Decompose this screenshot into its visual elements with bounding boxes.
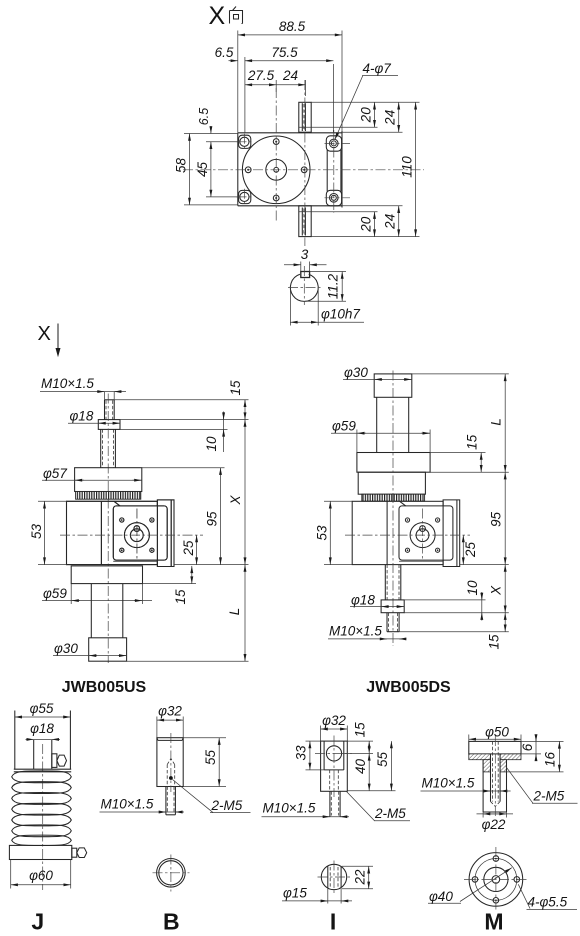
svg-text:X: X [209,2,226,30]
svg-text:16: 16 [543,752,558,768]
svg-text:10: 10 [465,580,480,596]
svg-text:6.5: 6.5 [215,45,234,60]
svg-text:55: 55 [375,752,390,768]
svg-text:24: 24 [383,214,398,230]
svg-text:11.2: 11.2 [326,273,341,299]
svg-text:φ18: φ18 [70,409,94,424]
svg-text:75.5: 75.5 [271,45,298,60]
svg-text:15: 15 [464,434,479,450]
svg-text:φ22: φ22 [482,817,506,832]
svg-text:φ10h7: φ10h7 [321,307,360,322]
svg-text:φ55: φ55 [30,701,54,716]
svg-text:φ50: φ50 [485,725,509,740]
svg-text:J: J [31,909,44,935]
svg-text:φ30: φ30 [54,641,78,656]
svg-text:95: 95 [205,511,220,527]
svg-text:55: 55 [203,750,218,766]
svg-text:M: M [484,909,503,935]
svg-text:33: 33 [294,745,309,761]
svg-text:40: 40 [353,759,368,775]
svg-text:M10×1.5: M10×1.5 [329,624,382,639]
svg-text:M10×1.5: M10×1.5 [41,376,94,391]
svg-text:φ59: φ59 [332,419,356,434]
svg-text:58: 58 [174,158,189,174]
svg-text:3: 3 [301,247,309,262]
svg-text:15: 15 [228,380,243,396]
svg-text:15: 15 [352,722,367,738]
svg-text:20: 20 [358,107,373,124]
svg-text:L: L [227,608,242,616]
svg-text:M10×1.5: M10×1.5 [422,776,475,791]
svg-text:M10×1.5: M10×1.5 [101,797,154,812]
svg-text:24: 24 [282,68,298,83]
svg-text:M10×1.5: M10×1.5 [263,801,316,816]
svg-text:φ18: φ18 [30,721,54,736]
svg-text:6: 6 [520,743,535,751]
svg-text:15: 15 [173,589,188,605]
svg-text:53: 53 [29,524,44,540]
svg-text:I: I [330,909,336,935]
svg-text:B: B [163,909,180,935]
svg-text:JWB005US: JWB005US [62,679,147,696]
svg-text:2-M5: 2-M5 [533,789,565,804]
svg-text:JWB005DS: JWB005DS [366,679,451,696]
svg-text:53: 53 [315,525,330,541]
svg-text:φ15: φ15 [283,886,307,901]
svg-text:2-M5: 2-M5 [211,798,243,813]
svg-text:φ59: φ59 [43,586,67,601]
svg-text:X: X [489,585,504,596]
svg-text:4-φ7: 4-φ7 [363,61,392,76]
svg-text:27.5: 27.5 [247,68,275,83]
svg-text:20: 20 [358,216,373,233]
svg-text:15: 15 [487,634,502,650]
svg-text:6.5: 6.5 [197,108,211,125]
svg-text:10: 10 [204,436,219,452]
svg-text:2-M5: 2-M5 [374,806,406,821]
svg-text:X: X [38,323,51,345]
svg-text:φ32: φ32 [158,704,182,719]
svg-text:L: L [488,418,503,426]
svg-text:φ18: φ18 [351,593,375,608]
svg-text:25: 25 [181,540,196,557]
svg-text:X: X [228,495,243,506]
svg-text:95: 95 [489,512,504,528]
svg-text:φ30: φ30 [344,365,368,380]
svg-text:110: 110 [399,156,414,178]
svg-text:45: 45 [195,162,210,178]
svg-text:24: 24 [383,110,398,126]
svg-text:4-φ5.5: 4-φ5.5 [528,895,568,910]
svg-text:φ60: φ60 [29,868,53,883]
svg-text:φ57: φ57 [43,466,67,481]
svg-text:88.5: 88.5 [279,19,306,34]
svg-text:φ40: φ40 [429,889,453,904]
svg-text:22: 22 [352,869,367,886]
svg-text:φ32: φ32 [322,713,346,728]
svg-text:25: 25 [463,542,478,559]
